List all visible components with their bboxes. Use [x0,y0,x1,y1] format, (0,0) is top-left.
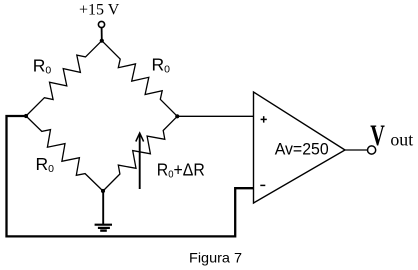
node: bridge right junction [175,114,179,118]
node: bridge top junction [100,39,104,43]
pin label + (non-inverting input) [261,118,267,120]
resistor R0 (top-left arm of bridge) [26,41,102,116]
wire: bridge right node to op-amp non-inverting input [177,115,253,117]
resistor R0 (bottom-left arm of bridge) [26,116,103,191]
resistor R0 (top-right arm of bridge) [102,41,178,117]
variable resistor R0+dR (bottom-right arm of bridge) [103,116,177,191]
arrow of variable resistor [139,135,141,190]
svg-text:R0+ΔR: R0+ΔR [157,160,205,181]
output terminal Vout (open circle) [368,146,376,154]
node: bridge left junction [24,114,28,118]
ground symbol [95,224,112,226]
wire: bridge left node to op-amp inverting input (left/bottom loop) [7,116,254,236]
wire: +15V terminal to bridge top node [101,28,103,41]
svg-text:out: out [390,130,413,150]
svg-text:V: V [370,119,385,152]
svg-text:Figura 7: Figura 7 [189,250,242,266]
svg-text:+15 V: +15 V [79,1,120,18]
wire: op-amp output [345,149,367,151]
power terminal +15V (open circle) [98,21,104,27]
svg-text:Av=250: Av=250 [275,140,329,159]
wire: bridge bottom node to ground [102,191,104,225]
node: bridge bottom junction [101,189,105,193]
pin label - (inverting input) [260,184,265,186]
op-amp U1 (triangle) [254,92,346,203]
